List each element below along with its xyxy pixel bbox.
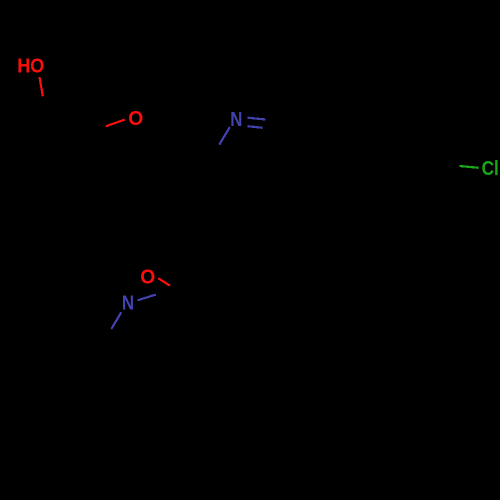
wire: C-Cl bond half-segment (460, 166, 479, 168)
wire: bond O(ether)-C half-segment (106, 120, 125, 127)
wire: pyridine N-C single bond half-segment (219, 127, 230, 145)
wire: pyridine N=C double bond inner line (248, 126, 263, 128)
wire: bond N(bottom)-C upper half-segment (138, 295, 156, 301)
svg-text:N: N (122, 292, 134, 314)
svg-text:N: N (230, 109, 242, 131)
svg-text:Cl: Cl (482, 158, 499, 180)
svg-text:O: O (140, 266, 155, 288)
wire: pyridine N=C double bond outer line (248, 118, 266, 120)
svg-text:HO: HO (17, 55, 44, 77)
wire: bond O(hydroxyl)-C half-segment (40, 77, 43, 96)
svg-text:O: O (128, 108, 143, 130)
wire: bond N(bottom)-C lower half-segment (111, 312, 121, 329)
wire: bond O(bottom)-C half-segment (158, 278, 170, 286)
